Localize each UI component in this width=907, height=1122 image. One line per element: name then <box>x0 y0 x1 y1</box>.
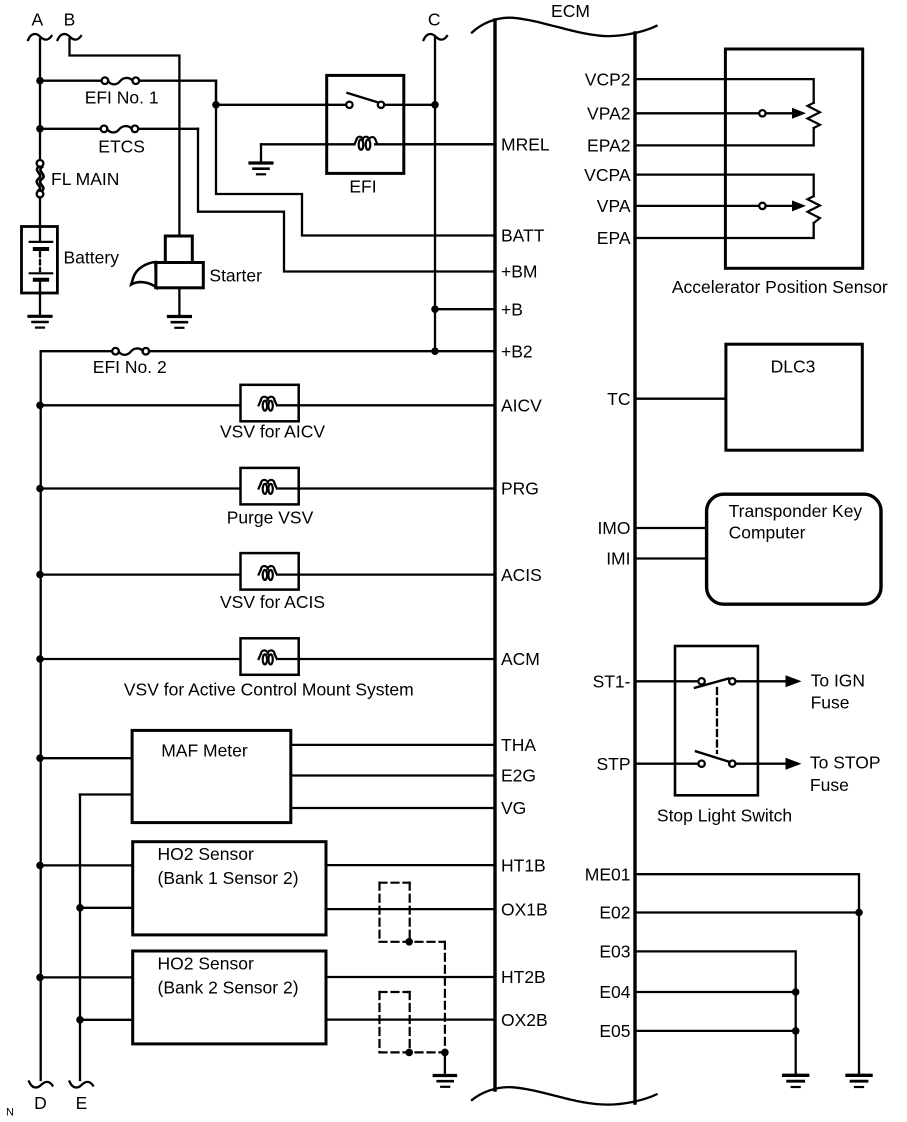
junction E bus / HO2-1 <box>76 904 84 912</box>
fuse ETCS <box>40 126 198 157</box>
svg-text:MREL: MREL <box>501 135 550 155</box>
node B <box>58 9 82 40</box>
svg-text:N: N <box>6 1107 14 1119</box>
svg-text:ETCS: ETCS <box>98 137 145 157</box>
svg-text:HT1B: HT1B <box>501 855 546 875</box>
svg-text:+B2: +B2 <box>501 341 533 361</box>
svg-text:BATT: BATT <box>501 226 545 246</box>
svg-text:VG: VG <box>501 798 526 818</box>
svg-text:E04: E04 <box>599 982 630 1002</box>
junction bus / ACIS <box>36 571 44 579</box>
wire E03 <box>635 951 796 1075</box>
junction C bus / relay switch wire <box>431 101 439 109</box>
svg-text:C: C <box>428 10 441 30</box>
svg-text:OX2B: OX2B <box>501 1010 548 1030</box>
wire left bus lower <box>40 351 42 1080</box>
svg-text:D: D <box>34 1093 47 1113</box>
svg-text:VSV for AICV: VSV for AICV <box>220 422 325 442</box>
wire E05 <box>635 1030 796 1032</box>
svg-text:THA: THA <box>501 735 536 755</box>
svg-text:Stop Light Switch: Stop Light Switch <box>657 806 792 826</box>
wire B to starter <box>70 39 180 235</box>
svg-text:HO2 Sensor: HO2 Sensor <box>158 953 254 973</box>
ground (battery) <box>29 293 51 328</box>
svg-text:ACIS: ACIS <box>501 565 542 585</box>
ECM bottom wave <box>472 1087 657 1104</box>
ECM left edge <box>493 20 496 1090</box>
svg-text:+BM: +BM <box>501 262 537 282</box>
svg-text:HT2B: HT2B <box>501 967 546 987</box>
pin +B <box>435 308 495 310</box>
svg-text:Starter: Starter <box>209 266 262 286</box>
svg-text:Fuse: Fuse <box>811 693 850 713</box>
svg-text:Transponder Key: Transponder Key <box>729 501 863 521</box>
HO2 sensor bank1 <box>40 842 495 935</box>
pin MREL <box>404 143 495 145</box>
ground (E03 E04 E05) <box>784 1075 808 1087</box>
DLC3 <box>635 344 862 450</box>
svg-text:EFI No. 1: EFI No. 1 <box>85 87 159 107</box>
svg-text:DLC3: DLC3 <box>771 357 816 377</box>
svg-text:E03: E03 <box>599 942 630 962</box>
pot 2 <box>635 175 814 197</box>
wire ME01 <box>635 874 859 1075</box>
junction E04 / E03 drop <box>792 988 800 996</box>
svg-text:ECM: ECM <box>551 1 590 21</box>
junction bus / PRG <box>36 485 44 493</box>
ECM top wave <box>472 18 657 36</box>
arrow To STOP <box>786 753 881 795</box>
svg-text:AICV: AICV <box>501 396 542 416</box>
wire E bus <box>79 795 81 1081</box>
svg-text:+B: +B <box>501 299 523 319</box>
junction shield 1 <box>405 938 413 946</box>
ground (shield) <box>434 1052 455 1086</box>
svg-text:VSV for ACIS: VSV for ACIS <box>220 592 325 612</box>
ground (ME01 E02) <box>847 1075 871 1087</box>
stop light switch <box>635 646 792 826</box>
svg-text:ACM: ACM <box>501 649 540 669</box>
svg-text:IMI: IMI <box>606 549 630 569</box>
svg-text:Purge VSV: Purge VSV <box>227 508 314 528</box>
node C <box>424 10 448 40</box>
starter <box>131 236 262 288</box>
pot 1 <box>635 79 814 103</box>
svg-text:Accelerator Position Sensor: Accelerator Position Sensor <box>672 277 888 297</box>
svg-text:Fuse: Fuse <box>810 775 849 795</box>
svg-text:B: B <box>64 9 76 29</box>
svg-text:To STOP: To STOP <box>810 753 881 773</box>
svg-text:STP: STP <box>596 754 630 774</box>
junction bus / ACM <box>36 655 44 663</box>
shield bank1 (dashed) <box>380 883 445 1053</box>
svg-text:VCPA: VCPA <box>584 165 631 185</box>
junction E05 / E03 drop <box>792 1027 800 1035</box>
wire C vertical <box>434 38 436 351</box>
svg-text:PRG: PRG <box>501 479 539 499</box>
svg-text:EPA2: EPA2 <box>587 136 630 156</box>
junction A bus / EFI No.1 <box>36 77 44 85</box>
HO2 sensor bank2 <box>40 951 495 1044</box>
svg-text:ME01: ME01 <box>585 864 631 884</box>
pin labels left <box>501 135 550 1030</box>
wire A bus top <box>39 39 41 161</box>
wire E02 <box>635 911 859 913</box>
svg-text:MAF Meter: MAF Meter <box>161 741 248 761</box>
svg-text:(Bank 2 Sensor 2): (Bank 2 Sensor 2) <box>158 977 299 997</box>
junction EFI No.1 / relay switch wire <box>212 101 220 109</box>
VSV for ACM <box>40 638 495 699</box>
MAF meter <box>40 730 495 822</box>
node E <box>70 1082 94 1114</box>
pin labels right <box>584 69 631 1041</box>
junction shield ground <box>441 1049 449 1057</box>
fusible link FL MAIN <box>37 160 120 197</box>
VSV for AICV <box>40 385 495 442</box>
svg-text:(Bank 1 Sensor 2): (Bank 1 Sensor 2) <box>158 868 299 888</box>
ground (relay) <box>250 144 272 174</box>
svg-text:VCP2: VCP2 <box>585 69 631 89</box>
accelerator position sensor <box>635 49 888 297</box>
svg-text:VPA: VPA <box>597 196 631 216</box>
svg-text:Battery: Battery <box>64 247 120 267</box>
ground (starter) <box>168 288 190 328</box>
ECM right edge <box>633 33 636 1103</box>
svg-text:E: E <box>76 1093 88 1113</box>
svg-text:HO2 Sensor: HO2 Sensor <box>158 844 254 864</box>
svg-text:FL MAIN: FL MAIN <box>51 169 119 189</box>
battery <box>22 197 120 293</box>
node D <box>29 1082 53 1114</box>
junction C bus / +B <box>431 305 439 313</box>
transponder key computer <box>635 494 881 604</box>
junction shield 2 <box>405 1049 413 1057</box>
junction E bus / HO2-2 <box>76 1016 84 1024</box>
junction bus / HT2B <box>36 974 44 982</box>
svg-text:EFI No. 2: EFI No. 2 <box>93 357 167 377</box>
svg-text:VPA2: VPA2 <box>587 104 630 124</box>
svg-text:OX1B: OX1B <box>501 899 548 919</box>
wire ETCS to +BM <box>198 129 495 272</box>
wire EFI No.1 to relay and BATT <box>216 81 495 236</box>
junction C bus / +B2 <box>431 347 439 355</box>
junction bus / HT1B <box>36 862 44 870</box>
junction A bus / ETCS <box>36 125 44 133</box>
shield bank2 (dashed) <box>380 992 445 1052</box>
VSV for ACIS <box>40 553 495 612</box>
svg-text:EPA: EPA <box>597 228 631 248</box>
VSV Purge <box>40 468 495 528</box>
junction bus / AICV <box>36 402 44 410</box>
relay EFI <box>261 75 495 196</box>
junction E02 / ME01 drop <box>855 909 863 917</box>
fuse EFI No. 2 <box>41 348 495 377</box>
svg-text:A: A <box>31 9 43 29</box>
svg-text:E05: E05 <box>599 1021 630 1041</box>
svg-text:ST1-: ST1- <box>593 672 631 692</box>
svg-text:VSV for Active Control Mount S: VSV for Active Control Mount System <box>124 679 414 699</box>
svg-text:TC: TC <box>607 389 630 409</box>
arrow To IGN <box>786 670 866 712</box>
svg-text:EFI: EFI <box>349 177 376 197</box>
svg-text:IMO: IMO <box>597 518 630 538</box>
node A <box>28 9 52 40</box>
svg-text:Computer: Computer <box>729 523 806 543</box>
svg-text:To IGN: To IGN <box>811 670 865 690</box>
fuse EFI No. 1 <box>40 77 216 107</box>
wire E04 <box>635 991 796 993</box>
svg-text:E02: E02 <box>599 903 630 923</box>
junction bus / MAF <box>36 754 44 762</box>
svg-text:E2G: E2G <box>501 766 536 786</box>
